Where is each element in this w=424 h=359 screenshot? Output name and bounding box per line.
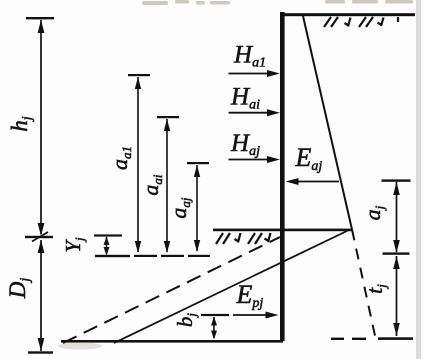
force E_pj arrow (pointing right at wall) <box>233 312 279 319</box>
label a_j <box>360 205 387 220</box>
label E_pj <box>236 280 264 311</box>
dimension a_j line <box>393 182 400 253</box>
scan edge strip right <box>416 0 421 359</box>
wall (sheet pile) <box>280 12 285 341</box>
label a_a1 <box>107 146 134 170</box>
label Y_j <box>61 237 87 253</box>
ground surface line top right <box>282 13 415 16</box>
ground hatching at dredge line <box>216 233 271 244</box>
excavation / dredge line at wall <box>213 229 352 232</box>
dashed zero-pressure baseline <box>95 255 210 257</box>
right dimension middle tick <box>383 252 410 254</box>
left dimension D_j line with arrows <box>38 240 45 351</box>
left dimension bottom tick <box>28 351 53 353</box>
label H_ai <box>230 83 260 112</box>
scan noise top-right <box>325 0 413 4</box>
dimension a_ai line <box>164 119 170 253</box>
label H_a1 <box>233 42 266 71</box>
right dimension top tick <box>382 179 411 181</box>
dimension a_aj: tick <box>187 162 209 164</box>
label h_j <box>7 116 35 132</box>
force H_ai arrow <box>229 109 281 116</box>
label H_aj <box>230 130 260 159</box>
left dimension h_j line with arrows <box>38 20 45 236</box>
force H_aj arrow <box>229 156 281 163</box>
label a_ai <box>138 174 165 196</box>
dashed wedge diagonal <box>63 237 280 343</box>
left dimension break tick (ground level) <box>25 232 53 242</box>
E_pj tail tick <box>201 314 229 316</box>
solid passive wedge diagonal <box>114 230 350 344</box>
dimension t_j line <box>393 256 400 336</box>
left dimension: top tick <box>26 17 54 19</box>
force E_aj arrow (pointing left at wall) <box>286 178 340 185</box>
label E_aj <box>295 143 323 174</box>
label t_j <box>362 284 389 294</box>
bottom line (wall base level, solid) <box>61 340 283 343</box>
ground hatching top <box>324 17 398 27</box>
scan noise top-left <box>142 0 230 5</box>
dimension a_a1 line <box>135 77 141 253</box>
dimension Y_j double arrow <box>104 237 110 256</box>
dimension a_ai: tick <box>157 116 179 118</box>
slanted active wedge line (solid part) <box>303 16 352 230</box>
force H_a1 arrow <box>229 70 281 77</box>
label a_aj <box>166 197 193 219</box>
dimension b_j double arrow <box>211 317 217 340</box>
dimension a_a1: tick <box>128 74 150 76</box>
dimension a_aj line <box>194 165 200 252</box>
bottom line dashed continuation <box>331 338 366 340</box>
label D_j <box>5 278 33 300</box>
right dimension bottom tick <box>378 337 413 340</box>
label b_j <box>173 313 199 328</box>
scan smudge bottom-left <box>58 343 102 350</box>
dimension Y_j tick top <box>94 234 122 236</box>
slanted active wedge line (dashed part) <box>352 230 376 339</box>
